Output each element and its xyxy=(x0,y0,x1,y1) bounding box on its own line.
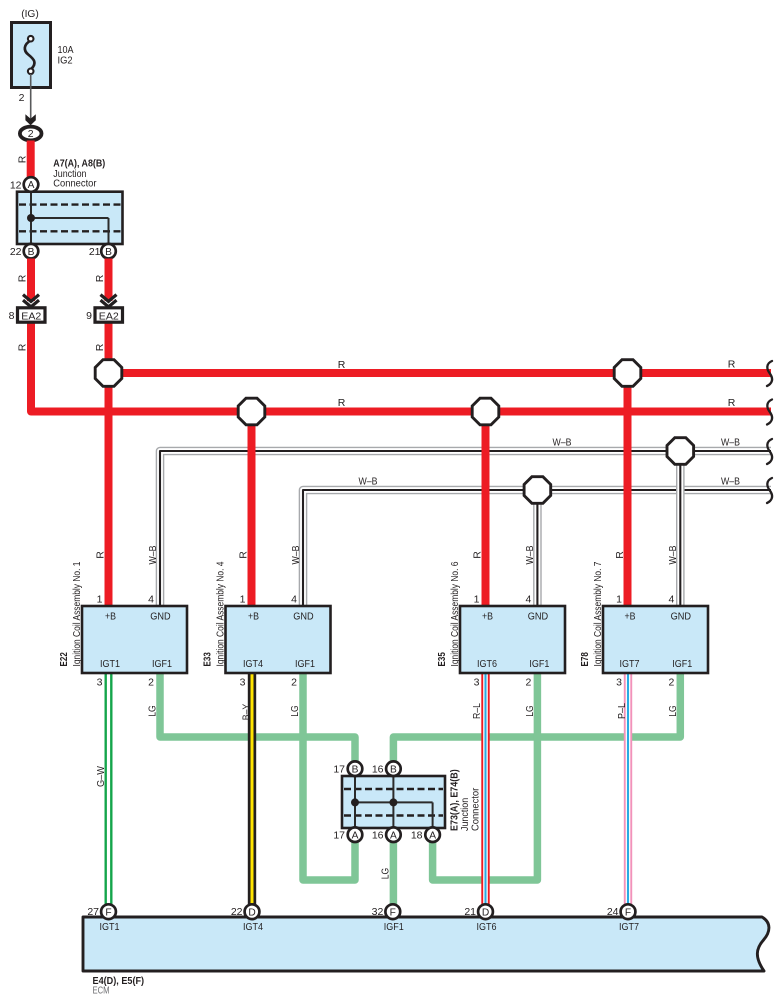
svg-text:B: B xyxy=(105,247,112,258)
svg-text:R: R xyxy=(472,551,484,559)
svg-text:IGT7: IGT7 xyxy=(619,921,639,933)
svg-text:IG2: IG2 xyxy=(58,55,73,67)
svg-text:F: F xyxy=(625,907,631,918)
svg-text:A: A xyxy=(429,830,436,841)
svg-text:W–B: W–B xyxy=(553,437,572,449)
svg-text:4: 4 xyxy=(668,594,674,606)
svg-text:3: 3 xyxy=(616,677,622,689)
svg-text:GND: GND xyxy=(671,611,692,623)
svg-text:E22: E22 xyxy=(58,652,70,666)
svg-text:27: 27 xyxy=(87,906,99,918)
svg-text:32: 32 xyxy=(372,906,384,918)
svg-text:2: 2 xyxy=(148,677,154,689)
svg-text:IGT1: IGT1 xyxy=(100,921,120,933)
svg-text:B: B xyxy=(390,764,397,775)
svg-text:1: 1 xyxy=(474,594,480,606)
svg-text:IGT7: IGT7 xyxy=(620,658,640,670)
svg-text:GND: GND xyxy=(528,611,549,623)
svg-text:W–B: W–B xyxy=(721,476,740,488)
svg-text:IGT4: IGT4 xyxy=(243,658,263,670)
svg-text:EA2: EA2 xyxy=(99,310,119,322)
svg-text:R: R xyxy=(614,551,626,559)
svg-text:E33: E33 xyxy=(202,652,214,666)
svg-text:G–W: G–W xyxy=(95,766,107,787)
svg-text:3: 3 xyxy=(240,677,246,689)
svg-text:1: 1 xyxy=(616,594,622,606)
svg-text:W–B: W–B xyxy=(147,546,159,565)
svg-text:W–B: W–B xyxy=(524,546,536,565)
svg-text:B–Y: B–Y xyxy=(240,704,252,721)
svg-text:R: R xyxy=(728,359,736,371)
svg-text:IGF1: IGF1 xyxy=(152,658,172,670)
svg-text:IGT4: IGT4 xyxy=(243,921,263,933)
svg-text:+B: +B xyxy=(625,611,636,623)
svg-text:4: 4 xyxy=(526,594,532,606)
svg-text:R–L: R–L xyxy=(471,703,483,719)
svg-text:4: 4 xyxy=(291,594,297,606)
svg-text:17: 17 xyxy=(333,764,345,776)
svg-text:(IG): (IG) xyxy=(21,8,39,20)
svg-text:R: R xyxy=(728,397,736,409)
svg-text:R: R xyxy=(95,551,107,559)
svg-text:2: 2 xyxy=(526,677,532,689)
svg-text:Connector: Connector xyxy=(53,178,97,190)
svg-text:22: 22 xyxy=(10,246,22,258)
svg-text:E78: E78 xyxy=(579,652,591,666)
svg-text:9: 9 xyxy=(86,310,92,322)
svg-text:IGT6: IGT6 xyxy=(477,658,497,670)
svg-text:W–B: W–B xyxy=(290,546,302,565)
svg-text:12: 12 xyxy=(10,179,22,191)
svg-text:R: R xyxy=(94,274,106,282)
svg-text:18: 18 xyxy=(411,830,423,842)
svg-text:A: A xyxy=(28,180,35,191)
svg-text:LG: LG xyxy=(380,868,392,880)
svg-text:R: R xyxy=(16,343,28,351)
svg-text:Ignition Coil Assembly No. 4: Ignition Coil Assembly No. 4 xyxy=(214,561,226,666)
svg-text:16: 16 xyxy=(372,764,384,776)
svg-text:GND: GND xyxy=(150,611,171,623)
svg-text:Ignition Coil Assembly No. 7: Ignition Coil Assembly No. 7 xyxy=(592,561,604,666)
svg-text:Ignition Coil Assembly No. 1: Ignition Coil Assembly No. 1 xyxy=(71,561,83,666)
svg-text:22: 22 xyxy=(231,906,243,918)
svg-text:W–B: W–B xyxy=(359,476,378,488)
svg-text:GND: GND xyxy=(293,611,314,623)
svg-text:8: 8 xyxy=(9,310,15,322)
svg-text:2: 2 xyxy=(28,128,34,140)
svg-text:21: 21 xyxy=(464,906,476,918)
svg-text:R: R xyxy=(338,359,346,371)
svg-text:21: 21 xyxy=(89,246,101,258)
svg-text:R: R xyxy=(16,274,28,282)
svg-text:W–B: W–B xyxy=(721,437,740,449)
svg-text:IGF1: IGF1 xyxy=(529,658,549,670)
svg-text:B: B xyxy=(352,764,359,775)
svg-text:+B: +B xyxy=(248,611,259,623)
svg-text:LG: LG xyxy=(667,705,679,717)
svg-text:LG: LG xyxy=(524,705,536,717)
svg-text:R: R xyxy=(94,343,106,351)
svg-text:3: 3 xyxy=(97,677,103,689)
svg-text:D: D xyxy=(248,907,255,918)
svg-text:2: 2 xyxy=(291,677,297,689)
svg-text:IGF1: IGF1 xyxy=(672,658,692,670)
svg-text:4: 4 xyxy=(148,594,154,606)
svg-text:R: R xyxy=(16,155,28,163)
svg-text:IGT1: IGT1 xyxy=(100,658,120,670)
svg-text:2: 2 xyxy=(19,92,25,104)
svg-text:D: D xyxy=(482,907,489,918)
svg-text:3: 3 xyxy=(474,677,480,689)
svg-text:1: 1 xyxy=(240,594,246,606)
svg-text:24: 24 xyxy=(607,906,619,918)
svg-text:+B: +B xyxy=(105,611,116,623)
svg-text:R: R xyxy=(238,551,250,559)
svg-text:+B: +B xyxy=(482,611,493,623)
svg-text:LG: LG xyxy=(289,705,301,717)
svg-text:EA2: EA2 xyxy=(21,310,41,322)
svg-text:P–L: P–L xyxy=(616,703,628,719)
svg-text:R: R xyxy=(338,397,346,409)
svg-text:IGT6: IGT6 xyxy=(477,921,497,933)
svg-text:A: A xyxy=(352,830,359,841)
svg-text:IGF1: IGF1 xyxy=(295,658,315,670)
svg-text:LG: LG xyxy=(147,705,159,717)
svg-text:Connector: Connector xyxy=(469,787,481,831)
svg-text:IGF1: IGF1 xyxy=(384,921,404,933)
svg-text:E35: E35 xyxy=(436,652,448,666)
svg-text:F: F xyxy=(105,907,111,918)
svg-text:16: 16 xyxy=(372,830,384,842)
svg-text:W–B: W–B xyxy=(667,546,679,565)
svg-text:1: 1 xyxy=(97,594,103,606)
svg-text:17: 17 xyxy=(333,830,345,842)
svg-text:Ignition Coil Assembly No. 6: Ignition Coil Assembly No. 6 xyxy=(449,561,461,666)
svg-text:B: B xyxy=(28,247,35,258)
svg-text:A: A xyxy=(390,830,397,841)
svg-text:ECM: ECM xyxy=(93,985,110,997)
svg-text:2: 2 xyxy=(668,677,674,689)
svg-text:F: F xyxy=(390,907,396,918)
